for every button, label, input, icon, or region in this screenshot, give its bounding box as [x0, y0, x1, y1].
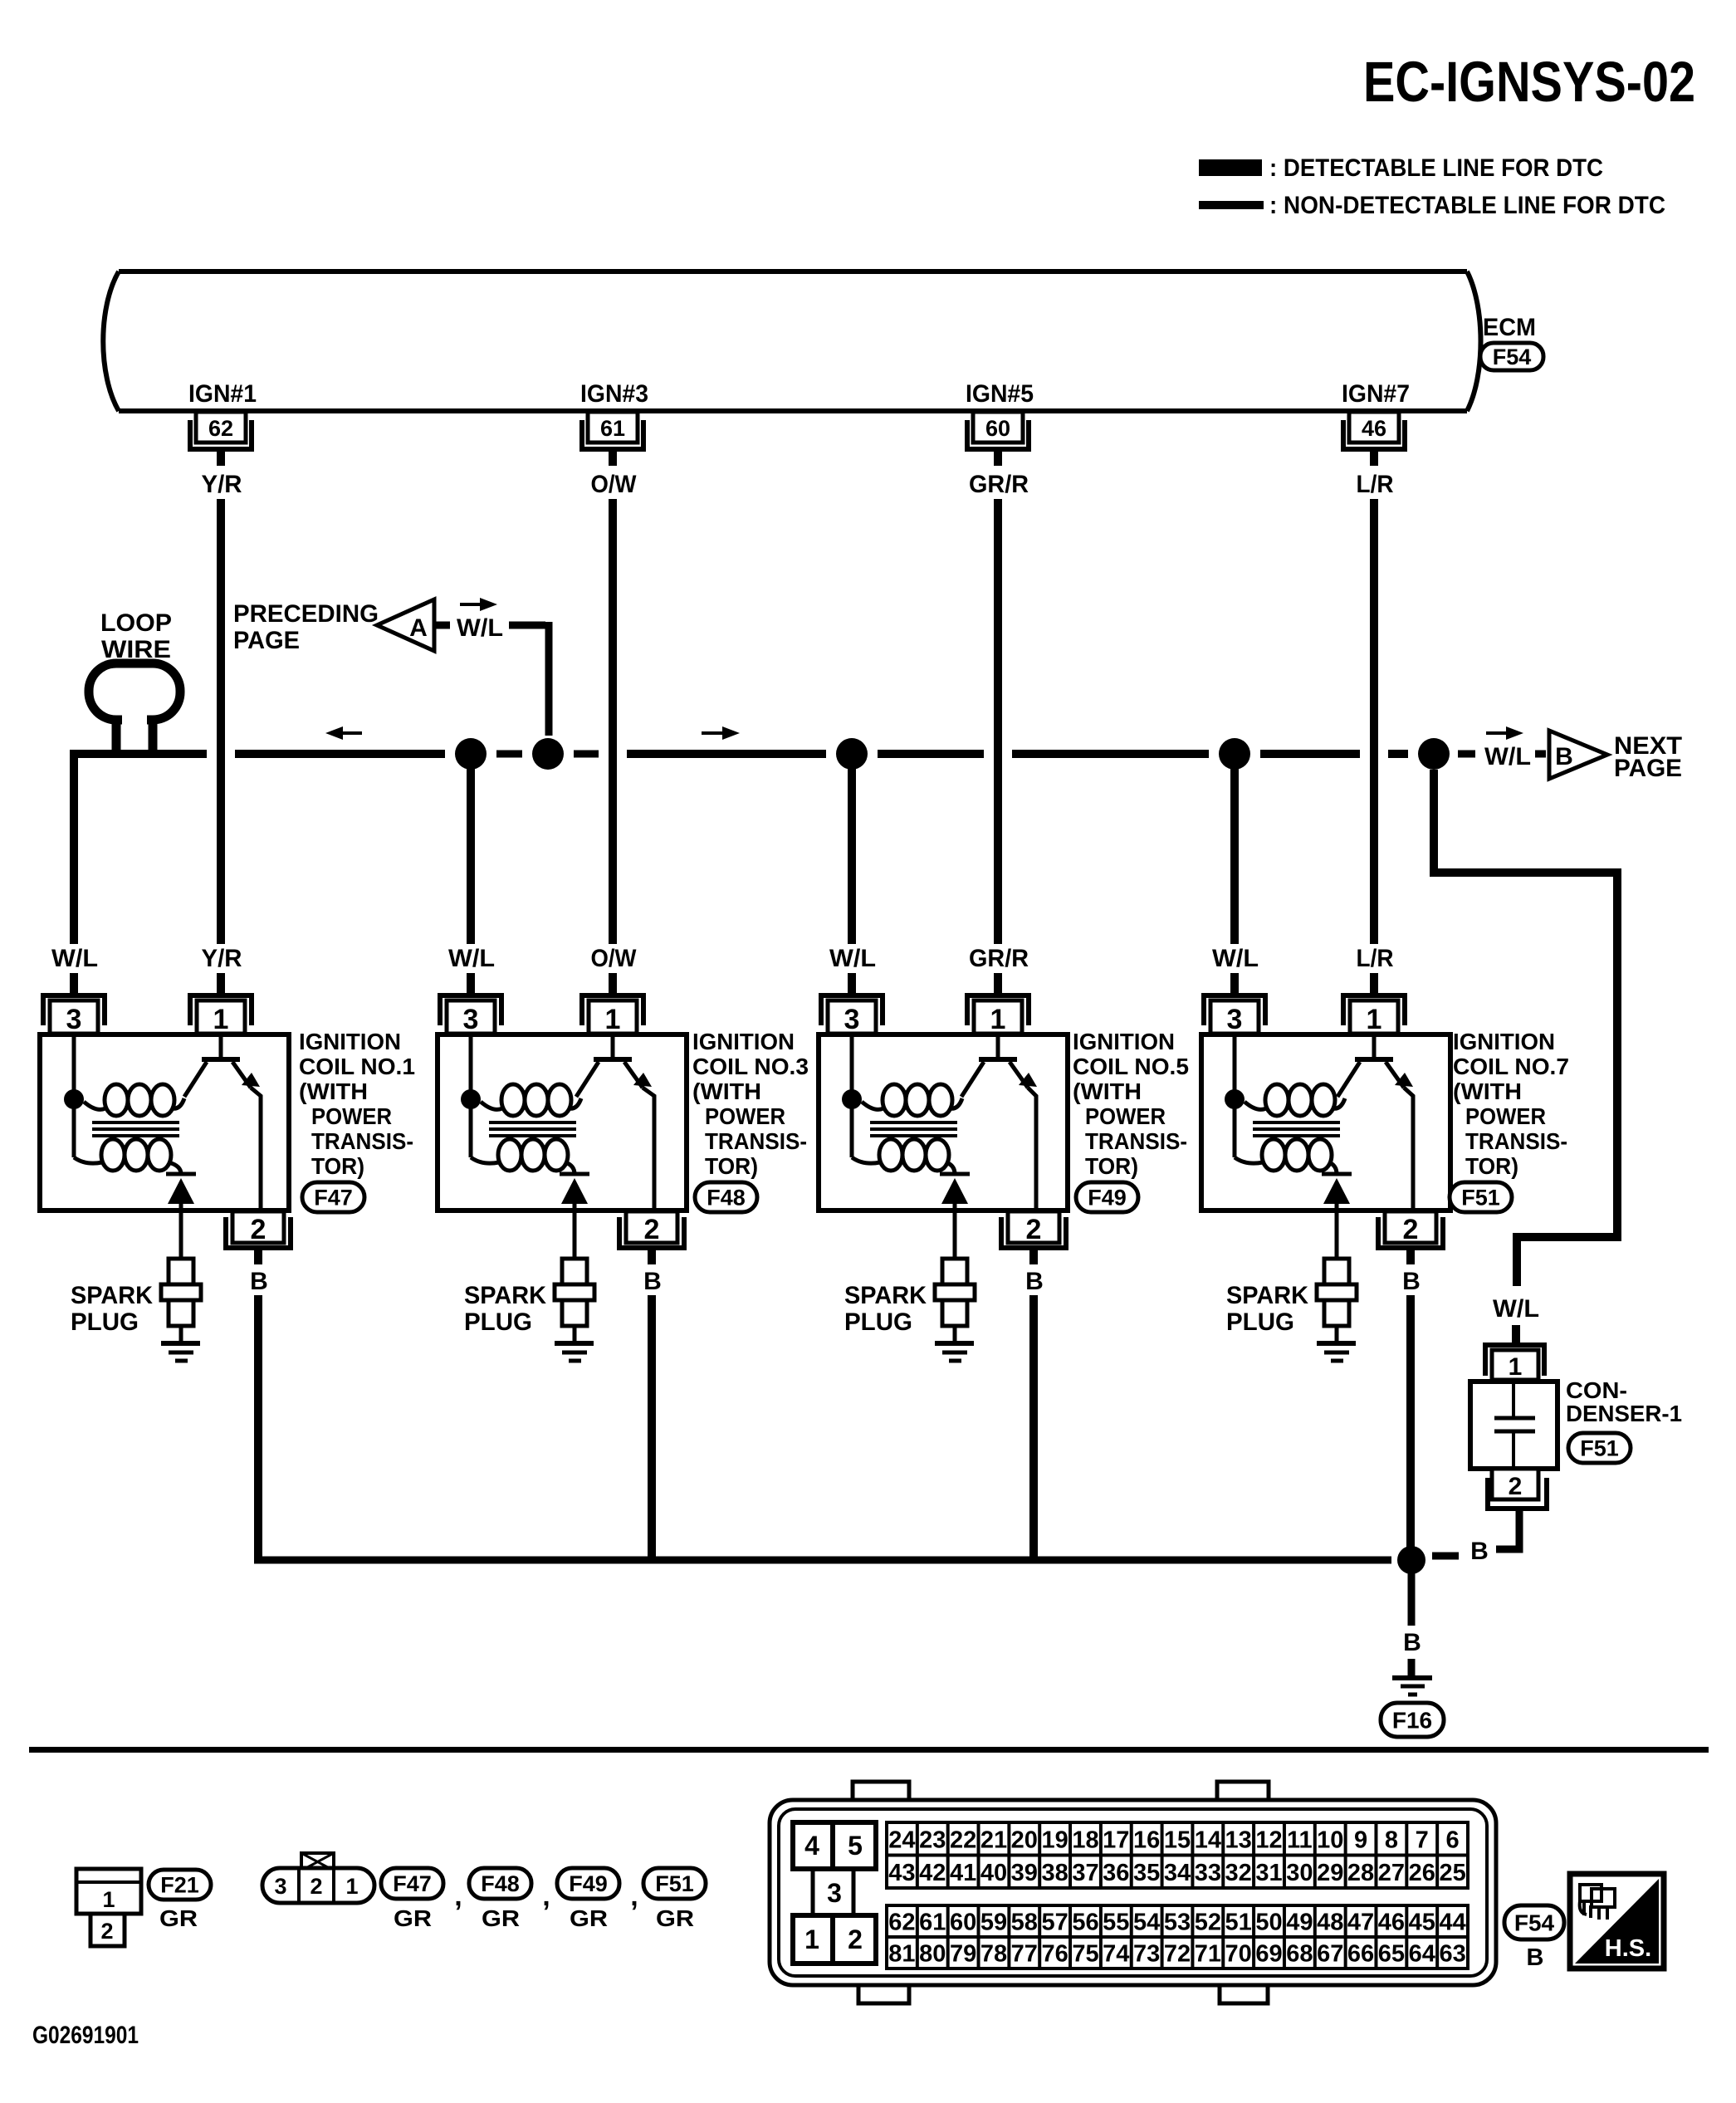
- wire label GR/R (above coil pin 1): [969, 945, 1029, 972]
- wire label B (below coil 7 pin 2): [1402, 1268, 1421, 1295]
- svg-text:1: 1: [804, 1924, 819, 1954]
- svg-text:W/L: W/L: [51, 945, 98, 972]
- svg-text:PLUG: PLUG: [464, 1308, 532, 1336]
- svg-text:1: 1: [990, 1004, 1006, 1035]
- legend detectable line swatch: [1199, 159, 1262, 176]
- wire B from coil 7 pin 2 down to B bus: [1406, 1295, 1415, 1560]
- node IGN#5: [966, 380, 1034, 408]
- ground F16: [1392, 1659, 1432, 1695]
- svg-text:: NON-DETECTABLE LINE FOR DTC: : NON-DETECTABLE LINE FOR DTC: [1269, 192, 1665, 219]
- svg-text:POWER: POWER: [705, 1103, 785, 1129]
- comma separator: [542, 1880, 550, 1912]
- svg-text:W/L: W/L: [448, 945, 495, 972]
- svg-text:PLUG: PLUG: [71, 1308, 139, 1336]
- svg-text:PAGE: PAGE: [233, 627, 300, 654]
- svg-text:F51: F51: [1461, 1186, 1500, 1210]
- wire W/L bus segment (coil 3 junction to GR/R crossing): [878, 750, 984, 758]
- coil 3 transformer core: [489, 1122, 576, 1136]
- connector F47 color GR: [394, 1905, 432, 1931]
- node IGN#7: [1342, 380, 1410, 408]
- svg-text:G02691901: G02691901: [32, 2022, 139, 2049]
- svg-text:3: 3: [827, 1878, 842, 1908]
- coil 1 internal junction: [64, 1089, 84, 1109]
- wire W/L bus segment (label to connector B): [1535, 751, 1546, 758]
- svg-text:18: 18: [1072, 1827, 1098, 1853]
- ground (spark plug coil 3): [555, 1343, 594, 1361]
- svg-text:F48: F48: [481, 1871, 520, 1896]
- wire W/L bus segment (loop wire corner to Y/R crossing): [70, 750, 207, 754]
- svg-text:B: B: [1402, 1268, 1421, 1295]
- wire stub into coil 4 pin 3: [1230, 973, 1239, 995]
- svg-text:1: 1: [102, 1887, 115, 1912]
- spark plug (coil 7): [1317, 1259, 1357, 1342]
- comma separator: [454, 1880, 462, 1912]
- NEXT PAGE label: [1614, 732, 1682, 782]
- svg-text:1: 1: [605, 1004, 621, 1035]
- svg-text:71: 71: [1195, 1941, 1221, 1968]
- svg-text:8: 8: [1385, 1827, 1398, 1853]
- coil 1 internal wire from pin 3: [72, 1034, 76, 1157]
- svg-text:64: 64: [1409, 1941, 1435, 1968]
- svg-text:TRANSIS-: TRANSIS-: [311, 1128, 413, 1154]
- svg-text:TOR): TOR): [311, 1153, 364, 1179]
- loop wire: [89, 663, 180, 754]
- wire stub into condenser pin 1: [1512, 1325, 1520, 1343]
- svg-text:65: 65: [1378, 1941, 1405, 1968]
- connector ref F49 oval (bottom): [557, 1868, 619, 1899]
- svg-text:45: 45: [1409, 1910, 1435, 1936]
- svg-text:2: 2: [251, 1214, 267, 1245]
- wire stub into coil pin 1 (Y/R): [217, 973, 225, 995]
- svg-text:28: 28: [1347, 1860, 1374, 1886]
- svg-text:2: 2: [644, 1214, 660, 1245]
- coil 5 diode: [940, 1174, 970, 1259]
- ignition coil no.7 box: [1201, 1034, 1450, 1210]
- wire label W/L (above coil 3 pin 3): [829, 945, 876, 972]
- ECM connector pin grid 24-6 / 43-25: [887, 1822, 1468, 1888]
- svg-text:31: 31: [1255, 1860, 1282, 1886]
- wire label B (above ground): [1403, 1629, 1421, 1656]
- svg-text:37: 37: [1072, 1860, 1098, 1886]
- svg-text:F47: F47: [314, 1186, 353, 1210]
- svg-text:O/W: O/W: [591, 945, 638, 972]
- svg-text:B: B: [1025, 1268, 1044, 1295]
- spark plug (coil 3): [555, 1259, 594, 1342]
- svg-text:67: 67: [1317, 1941, 1343, 1968]
- wire W/L bus segment (junction to O/W crossing): [574, 751, 599, 758]
- junction of bus and coil 4 W/L drop: [1219, 738, 1250, 770]
- figure number G02691901: [32, 2022, 139, 2049]
- title EC-IGNSYS-02: [1363, 50, 1695, 114]
- svg-text:COIL NO.5: COIL NO.5: [1073, 1054, 1189, 1079]
- legend non-detectable line swatch: [1199, 201, 1264, 209]
- wire stub into coil pin 1 (GR/R): [994, 973, 1002, 995]
- arrow (direction) on bus pointing right: [702, 726, 740, 740]
- ECM label: [1483, 314, 1536, 341]
- H.S. inspection mark: [1570, 1874, 1664, 1969]
- svg-text:IGN#1: IGN#1: [188, 380, 257, 408]
- connector ref F47 oval (coil 1): [302, 1182, 364, 1212]
- connector ref F16 oval (ground): [1381, 1703, 1444, 1737]
- wire B from condenser pin 2 to junction: [1432, 1511, 1519, 1556]
- coil 3 power transistor: [576, 1034, 654, 1210]
- svg-text:(WITH: (WITH: [1453, 1078, 1522, 1104]
- svg-text:21: 21: [980, 1827, 1007, 1853]
- svg-text:EC-IGNSYS-02: EC-IGNSYS-02: [1363, 50, 1695, 114]
- svg-text:2: 2: [1026, 1214, 1042, 1245]
- svg-text:2: 2: [310, 1874, 322, 1899]
- svg-text:LOOP: LOOP: [100, 609, 172, 637]
- condenser pin 2: [1485, 1469, 1549, 1510]
- svg-text:74: 74: [1103, 1941, 1129, 1968]
- coil 1 pin 1: [188, 993, 254, 1035]
- svg-text:Y/R: Y/R: [202, 945, 242, 972]
- coil 3 pin 3: [438, 993, 504, 1035]
- svg-text:GR: GR: [482, 1905, 520, 1931]
- svg-text:1: 1: [1367, 1004, 1382, 1035]
- svg-text:3: 3: [66, 1004, 82, 1035]
- svg-text:57: 57: [1041, 1910, 1068, 1936]
- svg-text:F51: F51: [1580, 1436, 1619, 1461]
- wire O/W from ECM pin 61 down to ignition coil: [609, 499, 617, 944]
- svg-text:6: 6: [1446, 1827, 1460, 1853]
- connector ref F51 oval (bottom): [643, 1868, 706, 1899]
- svg-text:W/L: W/L: [1212, 945, 1259, 972]
- junction of bus and condenser branch: [1418, 738, 1450, 770]
- wire label B (below coil 1 pin 2): [250, 1268, 268, 1295]
- wire label GR/R (below ECM pin 60): [969, 471, 1029, 498]
- svg-text:GR: GR: [394, 1905, 432, 1931]
- svg-text:COIL NO.3: COIL NO.3: [692, 1054, 809, 1079]
- svg-text:B: B: [1555, 743, 1573, 770]
- ignition coil no.5 box: [819, 1034, 1068, 1210]
- svg-text:19: 19: [1041, 1827, 1068, 1853]
- wire stub into coil 2 pin 3: [467, 973, 475, 995]
- ground (spark plug coil 7): [1317, 1343, 1356, 1361]
- wire label B (condenser return): [1470, 1538, 1489, 1565]
- svg-text:60: 60: [950, 1910, 976, 1936]
- connector ref F54 oval (ECM): [1480, 343, 1543, 370]
- node IGN#1: [188, 380, 257, 408]
- wire B from coil 3 pin 2 down to B bus: [648, 1295, 656, 1560]
- svg-text:TRANSIS-: TRANSIS-: [705, 1128, 807, 1154]
- wire B from coil 5 pin 2 down to B bus: [1029, 1295, 1038, 1560]
- wire label B (below coil 5 pin 2): [1025, 1268, 1044, 1295]
- svg-text:TOR): TOR): [1465, 1153, 1518, 1179]
- svg-text:75: 75: [1072, 1941, 1098, 1968]
- svg-text:38: 38: [1041, 1860, 1068, 1886]
- coil 7 transformer core: [1253, 1122, 1340, 1136]
- coil 5 primary winding: [862, 1084, 962, 1116]
- svg-text:80: 80: [919, 1941, 946, 1968]
- ECM pin 61 (IGN#3): [579, 412, 646, 466]
- svg-text:9: 9: [1354, 1827, 1367, 1853]
- coil 3 internal wire from pin 3: [469, 1034, 473, 1157]
- wire stub into coil 3 pin 3: [848, 973, 856, 995]
- svg-text:POWER: POWER: [311, 1103, 392, 1129]
- svg-text:4: 4: [804, 1831, 819, 1861]
- svg-text:ECM: ECM: [1483, 314, 1536, 341]
- coil 1 primary winding: [84, 1084, 184, 1116]
- condenser pin 1: [1483, 1342, 1547, 1381]
- connector ref F48 oval (coil 3): [695, 1182, 757, 1212]
- wire label W/L (above coil 1 pin 3): [51, 945, 98, 972]
- svg-text:(WITH: (WITH: [692, 1078, 761, 1104]
- svg-text:66: 66: [1347, 1941, 1374, 1968]
- svg-text:F51: F51: [655, 1871, 694, 1896]
- wire label B (below coil 3 pin 2): [643, 1268, 662, 1295]
- ECM pin 46 (IGN#7): [1341, 412, 1407, 466]
- coil 7 internal junction: [1225, 1089, 1245, 1109]
- SPARK PLUG label (coil 7): [1226, 1282, 1308, 1336]
- coil 1 pin 3: [41, 993, 107, 1035]
- svg-text:1: 1: [1509, 1353, 1523, 1381]
- connector F51 color GR: [656, 1905, 694, 1931]
- arrow (direction) above W/L at B: [1486, 726, 1523, 740]
- svg-text:IGNITION: IGNITION: [692, 1029, 795, 1054]
- ground (spark plug coil 1): [161, 1343, 200, 1361]
- svg-text:PLUG: PLUG: [844, 1308, 912, 1336]
- svg-text:60: 60: [985, 416, 1010, 441]
- connector ref F48 oval (bottom): [469, 1868, 531, 1899]
- coil 3 primary winding: [481, 1084, 581, 1116]
- separator line: [29, 1747, 1709, 1753]
- wire label W/L (at connector B): [1484, 743, 1531, 770]
- svg-text:B: B: [1527, 1944, 1544, 1971]
- coil 5 pin 3: [819, 993, 885, 1035]
- wire label W/L (above coil 2 pin 3): [448, 945, 495, 972]
- coil 5 internal wire from pin 3: [850, 1034, 854, 1157]
- svg-text:62: 62: [208, 416, 233, 441]
- coil 3 pin 2: [617, 1211, 687, 1264]
- svg-text:B: B: [643, 1268, 662, 1295]
- wire B from coil 1 pin 2 down to B bus: [254, 1295, 262, 1560]
- connector face 3-2-1 (coil connectors): [262, 1853, 374, 1903]
- svg-text:5: 5: [848, 1831, 863, 1861]
- svg-text:7: 7: [1416, 1827, 1429, 1853]
- svg-text:TOR): TOR): [1085, 1153, 1138, 1179]
- connector ref F21 oval: [149, 1870, 211, 1900]
- svg-text:GR: GR: [570, 1905, 608, 1931]
- wire stub into coil 1 pin 3: [70, 973, 78, 995]
- wire stub into coil pin 1 (O/W): [609, 973, 617, 995]
- junction of B bus and condenser return: [1397, 1546, 1425, 1574]
- svg-text:TRANSIS-: TRANSIS-: [1085, 1128, 1187, 1154]
- svg-text:43: 43: [888, 1860, 915, 1886]
- svg-text:PRECEDING: PRECEDING: [233, 600, 379, 628]
- coil 7 diode: [1322, 1174, 1352, 1259]
- spark plug (coil 1): [161, 1259, 201, 1342]
- svg-text:15: 15: [1164, 1827, 1191, 1853]
- wire W/L bus segment (L/R crossing to condenser junction): [1388, 750, 1408, 758]
- svg-text:PAGE: PAGE: [1614, 755, 1682, 782]
- svg-text:47: 47: [1347, 1910, 1374, 1936]
- svg-text:IGN#5: IGN#5: [966, 380, 1034, 408]
- SPARK PLUG label (coil 1): [71, 1282, 153, 1336]
- svg-text:3: 3: [463, 1004, 479, 1035]
- svg-text:14: 14: [1195, 1827, 1221, 1853]
- wire W/L bus segment (GR/R crossing to coil 4 junction): [1012, 750, 1209, 758]
- ignition coil no.3 label: [692, 1029, 809, 1179]
- svg-text:GR: GR: [159, 1905, 198, 1931]
- connector ref F51 oval (condenser): [1568, 1433, 1631, 1463]
- connector F49 color GR: [570, 1905, 608, 1931]
- svg-text:77: 77: [1011, 1941, 1038, 1968]
- arrow (direction) on bus pointing left: [325, 726, 362, 740]
- ignition coil no.1 label: [299, 1029, 415, 1179]
- svg-text:27: 27: [1378, 1860, 1405, 1886]
- coil 5 pin 2: [999, 1211, 1068, 1264]
- wire label W/L (above coil 4 pin 3): [1212, 945, 1259, 972]
- svg-text:,: ,: [630, 1880, 638, 1912]
- svg-text:B: B: [1403, 1629, 1421, 1656]
- svg-text:DENSER-1: DENSER-1: [1566, 1401, 1682, 1426]
- svg-text:59: 59: [980, 1910, 1007, 1936]
- svg-text:B: B: [1470, 1538, 1489, 1565]
- wire L/R from ECM pin 46 down to ignition coil: [1370, 499, 1378, 944]
- svg-text:H.S.: H.S.: [1605, 1935, 1651, 1962]
- ECM connector pin grid 62-44 / 81-63: [887, 1905, 1468, 1969]
- wire W/L bus segment (Y/R crossing to junction): [235, 750, 445, 758]
- coil 3 diode: [560, 1174, 589, 1259]
- ignition coil no.3 box: [438, 1034, 687, 1210]
- svg-text:POWER: POWER: [1465, 1103, 1546, 1129]
- svg-text:B: B: [250, 1268, 268, 1295]
- wire W/L bus segment (junction to label): [1458, 751, 1475, 758]
- svg-text:F47: F47: [393, 1871, 432, 1896]
- svg-text:F54: F54: [1514, 1910, 1555, 1936]
- svg-text:3: 3: [844, 1004, 860, 1035]
- svg-text:COIL NO.7: COIL NO.7: [1453, 1054, 1569, 1079]
- coil 5 internal junction: [842, 1089, 862, 1109]
- PRECEDING PAGE label: [233, 600, 379, 654]
- svg-text:62: 62: [888, 1910, 915, 1936]
- wire label L/R (below ECM pin 46): [1357, 471, 1394, 498]
- svg-text:1: 1: [345, 1874, 358, 1899]
- svg-text:12: 12: [1255, 1827, 1282, 1853]
- svg-text:2: 2: [848, 1924, 863, 1954]
- svg-text:SPARK: SPARK: [464, 1282, 546, 1309]
- svg-text:50: 50: [1255, 1910, 1282, 1936]
- LOOP WIRE label: [100, 609, 172, 663]
- svg-text:34: 34: [1164, 1860, 1191, 1886]
- svg-text:58: 58: [1011, 1910, 1038, 1936]
- svg-text:10: 10: [1317, 1827, 1343, 1853]
- svg-text:IGNITION: IGNITION: [1453, 1029, 1555, 1054]
- svg-text:2: 2: [1509, 1473, 1523, 1500]
- svg-text:68: 68: [1286, 1941, 1313, 1968]
- coil 7 pin 3: [1201, 993, 1268, 1035]
- svg-text:3: 3: [274, 1874, 286, 1899]
- svg-text:1: 1: [213, 1004, 229, 1035]
- svg-text:CON-: CON-: [1566, 1377, 1627, 1403]
- svg-text:IGN#7: IGN#7: [1342, 380, 1410, 408]
- svg-text:PLUG: PLUG: [1226, 1308, 1294, 1336]
- junction of bus and coil 3 W/L drop: [836, 738, 868, 770]
- junction of bus and coil 2 W/L drop: [455, 738, 487, 770]
- capacitor symbol (condenser-1): [1494, 1382, 1535, 1469]
- coil 1 secondary winding: [74, 1139, 181, 1174]
- wire label W/L (at connector A): [457, 614, 503, 642]
- wire GR/R from ECM pin 60 down to ignition coil: [994, 499, 1002, 944]
- connector F54 color B: [1527, 1944, 1544, 1971]
- coil 7 pin 2: [1376, 1211, 1445, 1264]
- off-page connector A (preceding page): [377, 599, 450, 651]
- svg-text:26: 26: [1409, 1860, 1435, 1886]
- wire W/L from bus junction to condenser: [1434, 770, 1617, 1286]
- svg-text:70: 70: [1225, 1941, 1252, 1968]
- svg-text:(WITH: (WITH: [299, 1078, 368, 1104]
- coil 1 transformer core: [92, 1122, 179, 1136]
- coil 3 internal junction: [461, 1089, 481, 1109]
- svg-text:23: 23: [919, 1827, 946, 1853]
- coil 5 transformer core: [870, 1122, 957, 1136]
- svg-text:F54: F54: [1493, 345, 1532, 369]
- svg-text:SPARK: SPARK: [71, 1282, 153, 1309]
- junction of bus and connector A branch: [532, 738, 564, 770]
- svg-text:IGNITION: IGNITION: [299, 1029, 401, 1054]
- svg-text:IGN#3: IGN#3: [580, 380, 648, 408]
- node IGN#3: [580, 380, 648, 408]
- connector F48 color GR: [482, 1905, 520, 1931]
- coil 1 diode: [166, 1174, 196, 1259]
- svg-text:81: 81: [888, 1941, 915, 1968]
- coil 7 power transistor: [1337, 1034, 1413, 1210]
- wire W/L bus segment (O/W crossing to coil 3 junction): [627, 750, 826, 758]
- SPARK PLUG label (coil 3): [464, 1282, 546, 1336]
- wire label W/L (above condenser pin 1): [1493, 1295, 1539, 1323]
- svg-text:72: 72: [1164, 1941, 1191, 1968]
- svg-text:W/L: W/L: [1493, 1295, 1539, 1323]
- svg-text:11: 11: [1287, 1827, 1313, 1853]
- SPARK PLUG label (coil 5): [844, 1282, 927, 1336]
- wire W/L from bus down to coil 2 pin 3: [467, 754, 475, 944]
- svg-text:16: 16: [1133, 1827, 1160, 1853]
- coil 3 secondary winding: [471, 1139, 575, 1174]
- ECM connector pin cells 4 5 3 1 2: [793, 1822, 876, 1964]
- wire W/L from bus down to coil 4 pin 3: [1230, 754, 1239, 944]
- spark plug (coil 5): [935, 1259, 975, 1342]
- svg-text:F16: F16: [1392, 1708, 1432, 1734]
- svg-text:40: 40: [980, 1860, 1007, 1886]
- ECM box: [103, 271, 1480, 411]
- svg-text:61: 61: [600, 416, 625, 441]
- svg-text:33: 33: [1195, 1860, 1221, 1886]
- svg-text:49: 49: [1286, 1910, 1313, 1936]
- connector face F21: [76, 1869, 141, 1946]
- wire stub into coil pin 1 (L/R): [1370, 973, 1378, 995]
- svg-text:GR: GR: [656, 1905, 694, 1931]
- svg-text:A: A: [409, 614, 428, 642]
- svg-text:F49: F49: [1088, 1186, 1127, 1210]
- svg-text:48: 48: [1317, 1910, 1343, 1936]
- ECM connector housing: [770, 1782, 1496, 2003]
- svg-text:3: 3: [1227, 1004, 1243, 1035]
- svg-text:GR/R: GR/R: [969, 471, 1029, 498]
- off-page connector B (next page): [1549, 731, 1607, 779]
- coil 1 pin 2: [223, 1211, 293, 1264]
- svg-text:O/W: O/W: [591, 471, 638, 498]
- svg-text:76: 76: [1041, 1941, 1068, 1968]
- wire from A to W/L bus: [509, 622, 549, 736]
- svg-text:TOR): TOR): [705, 1153, 758, 1179]
- svg-text:52: 52: [1195, 1910, 1221, 1936]
- svg-text:39: 39: [1011, 1860, 1038, 1886]
- svg-text:25: 25: [1439, 1860, 1465, 1886]
- svg-text:36: 36: [1103, 1860, 1129, 1886]
- svg-text:2: 2: [100, 1919, 113, 1944]
- legend detectable line text: [1269, 154, 1603, 182]
